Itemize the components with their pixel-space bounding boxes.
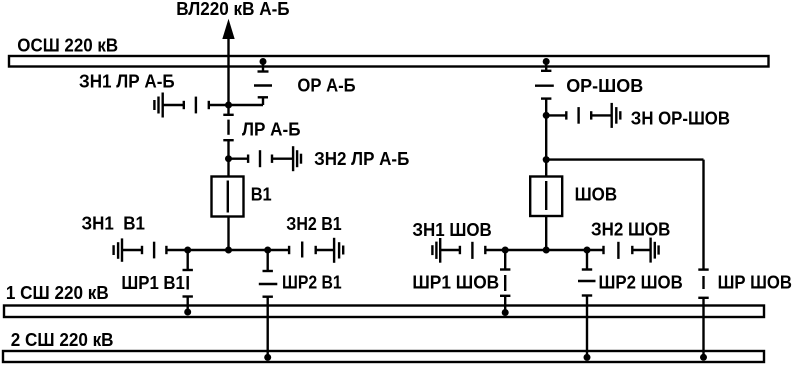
wire breaker V1 to lower node	[227, 217, 229, 251]
node: ShR2 ShOV tap	[584, 247, 591, 254]
bus OSSh 220 kV (bypass busbar)	[9, 56, 769, 67]
grounding switch ZN OR-ShOV	[546, 103, 620, 128]
svg-text:ШР1 ШОВ: ШР1 ШОВ	[412, 271, 499, 292]
node: ShR2 ShOV on bus 2	[584, 354, 591, 361]
wire lower node line ShOV	[485, 249, 603, 251]
svg-text:ВЛ220 кВ А-Б: ВЛ220 кВ А-Б	[176, 0, 289, 19]
node: ShR1 ShOV on bus 1	[502, 309, 509, 316]
bus 1 SSh 220 kV	[4, 306, 764, 318]
node B (LR A-B / ZN2)	[225, 155, 232, 162]
svg-text:ШР1 В1: ШР1 В1	[121, 272, 184, 293]
svg-text:ШР2 ШОВ: ШР2 ШОВ	[599, 271, 683, 292]
disconnector ShR1 ShOV	[500, 250, 510, 313]
svg-text:1 СШ 220 кВ: 1 СШ 220 кВ	[6, 282, 109, 303]
bus 2 SSh 220 kV	[3, 351, 764, 362]
svg-text:ЗН1 ШОВ: ЗН1 ШОВ	[412, 219, 491, 240]
wire node B to breaker V1	[227, 159, 229, 177]
node: ShR ShOV on bus 2	[700, 354, 707, 361]
node: OR A-B tap on bypass bus	[260, 58, 267, 65]
breaker V1	[212, 177, 244, 217]
svg-text:В1: В1	[251, 184, 272, 205]
svg-text:ШР ШОВ: ШР ШОВ	[718, 271, 792, 292]
svg-text:ШР2 В1: ШР2 В1	[282, 272, 342, 293]
disconnector OR A-B	[229, 62, 273, 106]
disconnector ShR2 V1	[259, 250, 278, 357]
disconnector ShR ShOV	[698, 160, 708, 358]
svg-text:ЗН ОР-ШОВ: ЗН ОР-ШОВ	[631, 107, 730, 128]
svg-text:ЗН1 ЛР А-Б: ЗН1 ЛР А-Б	[79, 71, 175, 92]
node: ShR1 V1 on bus 1	[184, 309, 191, 316]
node: ShR1 V1 tap	[184, 247, 191, 254]
wire node C to node D	[545, 115, 547, 176]
disconnector LR A-B	[223, 105, 233, 159]
svg-text:2 СШ 220 кВ: 2 СШ 220 кВ	[11, 329, 114, 350]
node: ShR2 V1 on bus 2	[264, 354, 271, 361]
node: OR-ShOV tap on bypass bus	[543, 58, 550, 65]
svg-text:ЗН2 ШОВ: ЗН2 ШОВ	[591, 219, 670, 240]
line VL220 arrow	[223, 21, 234, 39]
breaker ShOV	[530, 177, 562, 217]
grounding switch ZN1 V1	[114, 238, 167, 261]
grounding switch ZN2 V1	[289, 238, 343, 263]
svg-text:ЗН2 В1: ЗН2 В1	[286, 213, 341, 234]
svg-text:ЛР А-Б: ЛР А-Б	[242, 119, 301, 140]
svg-text:ЗН2 ЛР А-Б: ЗН2 ЛР А-Б	[314, 148, 409, 169]
node C (OR-ShOV / ZN OR-ShOV)	[543, 112, 550, 119]
disconnector ShR1 V1	[183, 250, 193, 312]
svg-text:ОР А-Б: ОР А-Б	[297, 75, 355, 96]
svg-text:ШОВ: ШОВ	[575, 184, 618, 205]
node D (ShR ShOV branch)	[543, 156, 550, 163]
node: ShR2 V1 tap	[264, 247, 271, 254]
grounding switch ZN1 ShOV	[432, 238, 485, 263]
node: ShOV bottom	[543, 247, 550, 254]
wire line A-B down to node 1	[227, 37, 229, 105]
wire lower node line V1	[166, 249, 289, 251]
node A (line A-B / OR A-B / ZN1)	[225, 102, 232, 109]
grounding switch ZN2 LR A-B	[229, 146, 302, 171]
disconnector OR-ShOV	[535, 62, 554, 116]
svg-text:ЗН1 В1: ЗН1 В1	[82, 213, 146, 234]
svg-text:ОР-ШОВ: ОР-ШОВ	[566, 75, 643, 96]
wire breaker ShOV to lower node	[545, 216, 547, 250]
disconnector ShR2 ShOV	[578, 250, 596, 357]
node: ShR1 ShOV tap	[502, 247, 509, 254]
svg-text:ОСШ 220 кВ: ОСШ 220 кВ	[17, 35, 118, 56]
wire ShR ShOV horizontal branch	[546, 158, 703, 160]
grounding switch ZN1 LR A-B	[154, 93, 228, 118]
grounding switch ZN2 ShOV	[604, 238, 659, 263]
node: V1 bottom	[225, 247, 232, 254]
